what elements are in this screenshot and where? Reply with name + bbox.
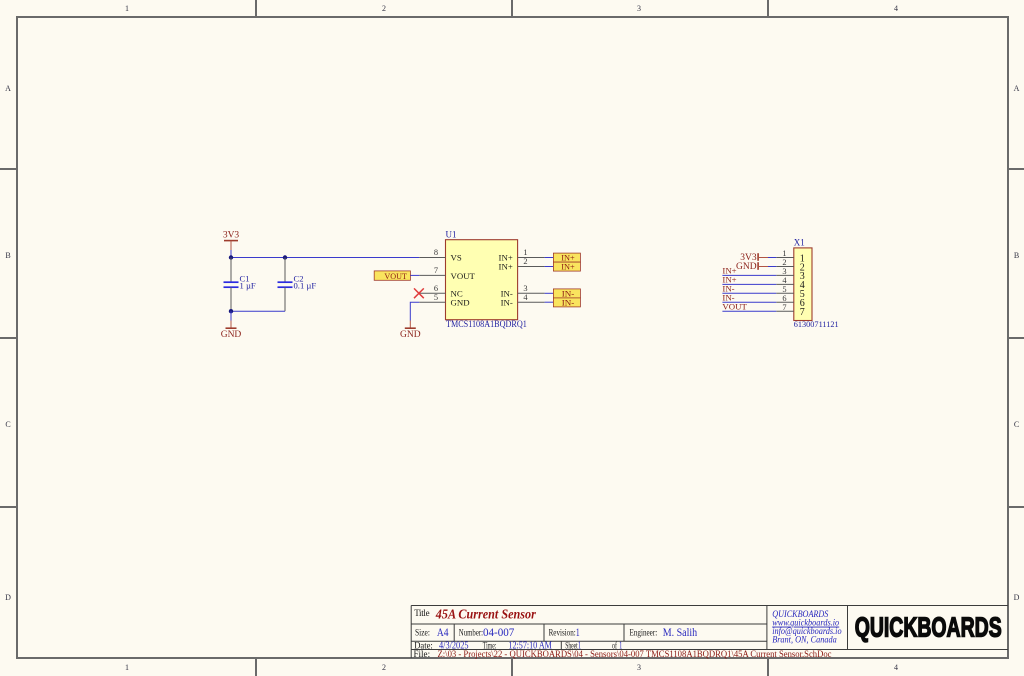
- svg-text:2: 2: [782, 258, 786, 267]
- svg-text:X1: X1: [794, 238, 805, 248]
- svg-text:3: 3: [523, 284, 527, 293]
- svg-text:IN-: IN-: [562, 297, 575, 307]
- svg-text:A: A: [5, 84, 11, 93]
- svg-text:Brant, ON, Canada: Brant, ON, Canada: [772, 634, 837, 644]
- svg-text:7: 7: [434, 266, 438, 275]
- svg-text:2: 2: [382, 663, 386, 672]
- svg-text:0.1 µF: 0.1 µF: [294, 281, 317, 291]
- pin 5 GND: [419, 301, 445, 303]
- wire C1 bottom to GND: [230, 311, 232, 320]
- port IN+ (pin1): [553, 253, 580, 263]
- svg-text:VOUT: VOUT: [722, 301, 747, 311]
- pin 8 VS: [419, 257, 445, 259]
- svg-text:1: 1: [125, 663, 129, 672]
- svg-text:C: C: [1014, 420, 1019, 429]
- power port 3V3 (top left): [223, 231, 240, 251]
- wire IN+ to X1 pin 4: [722, 283, 776, 285]
- wire 3V3 to X1 pin 1: [768, 257, 776, 259]
- svg-text:Title: Title: [414, 608, 429, 618]
- port IN- (pin3): [553, 288, 580, 298]
- svg-text:VOUT: VOUT: [451, 271, 476, 281]
- svg-text:45A Current Sensor: 45A Current Sensor: [435, 606, 537, 621]
- svg-text:5: 5: [434, 293, 438, 302]
- wire pin 5 to GND: [410, 302, 419, 320]
- svg-text:1: 1: [523, 248, 527, 257]
- wire pin 2 to port IN+: [545, 266, 554, 268]
- svg-text:IN+: IN+: [561, 262, 575, 272]
- capacitor C2: [278, 258, 317, 312]
- svg-text:1: 1: [125, 4, 129, 13]
- wire pin 3 to port IN-: [545, 292, 554, 294]
- X1 pin 5: [776, 292, 794, 294]
- svg-text:IN+: IN+: [499, 261, 513, 271]
- svg-text:B: B: [5, 251, 10, 260]
- wire IN+ to X1 pin 3: [722, 274, 776, 276]
- wire IN- to X1 pin 6: [722, 301, 776, 303]
- svg-text:3: 3: [637, 4, 641, 13]
- svg-text:3V3: 3V3: [223, 231, 240, 241]
- svg-text:File:: File:: [414, 649, 431, 659]
- wire GND to X1 pin 2: [768, 266, 776, 268]
- X1 pin 1: [776, 257, 794, 259]
- svg-text:1 µF: 1 µF: [240, 281, 256, 291]
- svg-text:M. Salih: M. Salih: [663, 627, 698, 639]
- svg-text:VOUT: VOUT: [384, 271, 407, 281]
- svg-text:Engineer:: Engineer:: [630, 628, 658, 638]
- wire 3V3 rail to U1 pin 8: [231, 257, 419, 259]
- svg-text:GND: GND: [736, 262, 757, 272]
- X1 pin 6: [776, 301, 794, 303]
- wire C2 bottom to C1 bottom: [231, 310, 285, 312]
- svg-text:D: D: [5, 593, 11, 602]
- X1 pin 7: [776, 310, 794, 312]
- svg-text:1: 1: [576, 627, 580, 639]
- X1 pin 4: [776, 283, 794, 285]
- svg-text:GND: GND: [451, 297, 470, 307]
- svg-text:04-007: 04-007: [483, 627, 515, 639]
- svg-text:A: A: [1014, 84, 1020, 93]
- svg-text:B: B: [1014, 251, 1019, 260]
- svg-text:C: C: [5, 420, 10, 429]
- junction at C1 top: [229, 255, 233, 259]
- svg-text:3: 3: [782, 267, 786, 276]
- svg-text:QUICKBOARDS: QUICKBOARDS: [855, 611, 1002, 642]
- svg-text:6: 6: [434, 284, 438, 293]
- junction at C1 bottom: [229, 309, 233, 313]
- pin 2 IN+: [518, 266, 545, 268]
- pin 7 VOUT: [419, 274, 445, 276]
- svg-text:Number:: Number:: [459, 628, 483, 638]
- svg-text:A4: A4: [437, 627, 449, 639]
- ground GND (under U1): [400, 321, 421, 340]
- svg-text:61300711121: 61300711121: [794, 319, 839, 329]
- company info block: [772, 609, 842, 644]
- no connect cross on pin 6: [414, 288, 424, 298]
- port IN- (pin4): [553, 297, 580, 307]
- svg-text:4: 4: [894, 4, 898, 13]
- svg-text:VS: VS: [451, 252, 462, 262]
- svg-text:3: 3: [637, 663, 641, 672]
- pin 1 IN+: [518, 257, 545, 259]
- svg-text:4: 4: [894, 663, 898, 672]
- svg-text:5: 5: [782, 285, 786, 294]
- svg-text:2: 2: [382, 4, 386, 13]
- svg-text:GND: GND: [221, 330, 242, 340]
- power port GND (at X1 pin 2): [736, 262, 768, 272]
- wire pin 1 to port IN+: [545, 257, 554, 259]
- pin 6 NC: [419, 292, 445, 294]
- wire 3V3 stub to rail: [230, 250, 232, 258]
- svg-text:7: 7: [800, 307, 805, 318]
- wire VOUT port to pin 7: [410, 274, 419, 276]
- svg-text:Z:\03 - Projects\22 - QUICKBOA: Z:\03 - Projects\22 - QUICKBOARDS\04 - S…: [438, 649, 832, 659]
- svg-text:Revision:: Revision:: [549, 628, 576, 638]
- svg-text:TMCS1108A1BQDRQ1: TMCS1108A1BQDRQ1: [446, 319, 527, 329]
- svg-text:GND: GND: [400, 330, 421, 340]
- svg-text:8: 8: [434, 248, 438, 257]
- port VOUT (left of pin 7): [374, 271, 410, 281]
- wire pin 4 to port IN-: [545, 301, 554, 303]
- svg-text:IN-: IN-: [501, 297, 513, 307]
- power port 3V3 (at X1 pin 1): [740, 253, 768, 263]
- wire IN- to X1 pin 5: [722, 292, 776, 294]
- port IN+ (pin2): [553, 262, 580, 272]
- ground GND (left): [221, 321, 242, 340]
- svg-text:Size:: Size:: [415, 628, 430, 638]
- svg-text:2: 2: [523, 257, 527, 266]
- IC U1 TMCS1108A1BQDRQ1 current sensor: [419, 229, 544, 329]
- svg-text:7: 7: [782, 303, 786, 312]
- X1 pin 2: [776, 266, 794, 268]
- capacitor C1: [224, 258, 256, 312]
- svg-text:D: D: [1014, 593, 1020, 602]
- X1 pin 3: [776, 274, 794, 276]
- svg-text:6: 6: [782, 294, 786, 303]
- pin 3 IN-: [518, 292, 545, 294]
- junction at C2 top: [283, 255, 287, 259]
- svg-text:1: 1: [782, 249, 786, 258]
- pin 4 IN-: [518, 301, 545, 303]
- wire VOUT to X1 pin 7: [722, 310, 776, 312]
- svg-text:U1: U1: [446, 229, 457, 239]
